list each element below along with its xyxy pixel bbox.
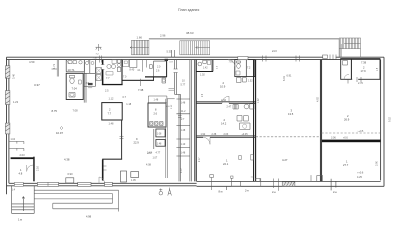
svg-text:2-н: 2-н [272, 190, 276, 194]
outer left wall [7, 57, 9, 194]
corridor pair below B2 [166, 99, 168, 178]
room A fixtures [68, 61, 77, 64]
svg-text:3.06: 3.06 [331, 137, 336, 140]
svg-text:14.2: 14.2 [221, 122, 227, 126]
central dark wall x321 [320, 60, 321, 182]
benchmark symbol [96, 44, 102, 51]
svg-text:2.03: 2.03 [20, 153, 26, 157]
duct strip above B2 [148, 96, 167, 103]
svg-text:1.3: 1.3 [217, 65, 219, 69]
svg-text:7.38: 7.38 [361, 61, 367, 65]
right column boxes [84, 60, 95, 87]
svg-text:1.48: 1.48 [181, 102, 186, 105]
room A box [66, 60, 84, 72]
svg-text:2.38: 2.38 [212, 133, 217, 136]
svg-text:3.90: 3.90 [376, 161, 379, 166]
sink in B [69, 93, 75, 98]
svg-text:1.4: 1.4 [12, 189, 16, 192]
door gap bottom of corner room [352, 78, 358, 80]
svg-text:2-н: 2-н [245, 189, 249, 193]
left wall window 3 [5, 123, 9, 134]
kitchen fixtures [107, 64, 111, 68]
L wall from room C down [121, 120, 123, 159]
dark wall pair x194.8-196.3 [195, 60, 197, 182]
room D1 [196, 71, 213, 73]
svg-text:7.7: 7.7 [108, 111, 112, 115]
svg-text:0.9: 0.9 [170, 62, 174, 64]
toilet in B [70, 75, 75, 78]
bottom wall right part [197, 181, 384, 186]
svg-text:2.6: 2.6 [156, 70, 160, 73]
svg-text:+0.6: +0.6 [343, 137, 348, 140]
wall stub x58 below top wall [57, 60, 58, 77]
svg-text:7.2: 7.2 [96, 54, 100, 56]
svg-text:38.63: 38.63 [186, 31, 194, 35]
svg-text:5.35: 5.35 [167, 50, 173, 54]
ticks crossing wall [261, 178, 279, 191]
vestibule right [317, 176, 323, 182]
svg-text:1.66: 1.66 [137, 35, 143, 39]
svg-text:1.48: 1.48 [181, 152, 186, 155]
svg-text:2.07: 2.07 [148, 152, 153, 155]
shaft wall pair right of bathroom B [84, 73, 86, 102]
svg-text:3: 3 [291, 109, 293, 113]
top cluster internal boxes [130, 60, 137, 68]
entrance marker symbols below wall [159, 189, 162, 192]
svg-text:13.71: 13.71 [68, 68, 75, 72]
svg-text:1: 1 [226, 159, 228, 163]
svg-text:9: 9 [136, 137, 138, 141]
thick wall right wing [322, 132, 380, 134]
svg-text:1.73: 1.73 [52, 63, 56, 69]
svg-text:2: 2 [363, 66, 365, 70]
dashed line y136.8 [256, 136, 321, 138]
svg-text:5.77: 5.77 [181, 84, 186, 87]
svg-text:1: 1 [346, 160, 348, 164]
svg-text:7.0: 7.0 [123, 76, 127, 79]
top-right corner room [341, 59, 380, 80]
svg-text:4.92: 4.92 [317, 97, 320, 102]
bottom-left window in wall [14, 182, 23, 186]
gate marks between stairs [172, 50, 175, 57]
svg-text:1.02: 1.02 [258, 98, 260, 103]
svg-text:2: 2 [347, 114, 349, 118]
svg-text:2.0: 2.0 [157, 66, 161, 69]
fixture P below room E [162, 78, 166, 83]
wall y136.5 middle [197, 136, 256, 137]
svg-text:≈+0.6: ≈+0.6 [357, 172, 364, 175]
room D2 [235, 60, 255, 77]
svg-text:4.1: 4.1 [137, 69, 141, 72]
boxes below B2 [153, 129, 155, 149]
dark wall x253.4-255.8 [254, 60, 256, 182]
stair 3 (top-right porch) [339, 38, 360, 57]
svg-text:2: 2 [223, 81, 225, 85]
svg-text:1.48: 1.48 [109, 122, 114, 125]
svg-text:8 м: 8 м [219, 190, 223, 194]
svg-text:0.90: 0.90 [68, 172, 74, 176]
dark wall y157 [11, 157, 35, 159]
door swing room 4.8 [27, 165, 34, 172]
windows on bottom wall (left) [37, 182, 58, 186]
window box on top wall above D2 [238, 57, 248, 60]
svg-text:1: 1 [20, 168, 22, 172]
svg-text:1.12: 1.12 [109, 97, 114, 100]
canopy line over entrances [149, 39, 341, 57]
svg-text:2.6: 2.6 [154, 113, 158, 116]
svg-text:13.5: 13.5 [288, 112, 294, 116]
svg-text:7.04: 7.04 [72, 87, 78, 91]
svg-text:1.04: 1.04 [11, 139, 16, 141]
svg-text:2.17: 2.17 [199, 157, 201, 162]
svg-text:2.7: 2.7 [181, 118, 185, 121]
fixtures in B2 [150, 122, 163, 126]
svg-text:26.9: 26.9 [344, 118, 350, 122]
svg-text:1.48: 1.48 [154, 99, 159, 102]
svg-text:7.7: 7.7 [106, 77, 110, 80]
svg-text:4.27: 4.27 [282, 158, 288, 162]
small box left of room E [149, 65, 152, 69]
stair 2 (top-center porch) [180, 41, 210, 55]
window ticks top wall + 2-И [263, 56, 300, 62]
bottom wall left part [7, 183, 197, 186]
stub horizontal at left [52, 68, 58, 70]
outer right wall [381, 57, 384, 186]
window box 231.6-240.6 [232, 181, 241, 186]
left wall window 1 [5, 66, 9, 78]
svg-text:22.9: 22.9 [134, 141, 140, 145]
door swing at x99 [99, 177, 105, 183]
svg-text:1.48: 1.48 [181, 129, 186, 132]
svg-text:2.03: 2.03 [224, 133, 229, 136]
small box 1.05 [131, 172, 139, 178]
room E [154, 61, 167, 77]
svg-text:1.10: 1.10 [181, 143, 186, 146]
svg-text:План здания: План здания [178, 8, 199, 12]
small box at left bottom [121, 171, 127, 182]
svg-text:3.40: 3.40 [12, 73, 16, 79]
top wall door opening right [323, 56, 336, 59]
svg-text:6.31: 6.31 [283, 76, 286, 81]
svg-text:27.7: 27.7 [343, 163, 349, 167]
svg-text:7.38: 7.38 [93, 57, 98, 59]
svg-text:1.48: 1.48 [157, 144, 162, 146]
svg-text:4.25: 4.25 [357, 176, 362, 179]
short wall left of cluster [140, 79, 142, 86]
left closet stubs [9, 141, 24, 151]
bathroom B2 [148, 103, 166, 127]
svg-text:22.1: 22.1 [223, 162, 229, 166]
svg-text:4.8: 4.8 [19, 171, 23, 175]
cells wall pair x189.9-191.3 [190, 60, 191, 182]
svg-text:4.98: 4.98 [86, 215, 92, 219]
stair 1 (top-left porch) [130, 40, 149, 55]
svg-text:7.38: 7.38 [138, 88, 144, 92]
svg-text:10: 10 [182, 80, 185, 83]
kitchen dark walls [102, 60, 104, 65]
svg-text:2.12: 2.12 [171, 104, 173, 109]
svg-text:1 м: 1 м [18, 218, 22, 222]
svg-text:1.92: 1.92 [201, 133, 206, 136]
left wall window 2 [5, 91, 9, 105]
svg-text:2.5: 2.5 [105, 90, 109, 93]
svg-text:1.05: 1.05 [131, 179, 136, 182]
corridor wall pair x174.6-176.4 (upper) [175, 60, 177, 95]
svg-text:9.52: 9.52 [389, 117, 392, 122]
svg-text:8: 8 [155, 109, 157, 112]
svg-text:1.07: 1.07 [153, 157, 158, 160]
svg-text:4.77: 4.77 [156, 152, 161, 155]
fixtures in room 22.1 [251, 155, 254, 161]
svg-text:4.08: 4.08 [146, 164, 151, 167]
svg-text:2.47: 2.47 [227, 106, 232, 109]
svg-text:17.9: 17.9 [361, 69, 367, 73]
bathroom B box [66, 73, 83, 99]
cells dividers column x178.7-189.9 [176, 99, 190, 156]
svg-text:1.23: 1.23 [13, 100, 19, 104]
svg-text:10.9: 10.9 [220, 85, 226, 89]
svg-text:2.44: 2.44 [221, 99, 226, 102]
svg-text:7.08: 7.08 [73, 109, 79, 113]
svg-text:+0.45: +0.45 [242, 133, 249, 136]
svg-text:0.6: 0.6 [167, 106, 171, 108]
svg-text:2: 2 [109, 108, 111, 112]
dark wall vertical x34 [33, 157, 35, 182]
door arc into corridor [228, 60, 235, 67]
svg-text:2.17: 2.17 [180, 168, 183, 173]
svg-text:2.6: 2.6 [202, 93, 204, 97]
svg-text:6.91: 6.91 [287, 75, 292, 78]
svg-text:2: 2 [224, 118, 226, 122]
svg-text:7.2: 7.2 [247, 67, 251, 70]
svg-text:2.16: 2.16 [37, 166, 40, 171]
ramp (switchback) [34, 190, 118, 211]
svg-text:2.96: 2.96 [160, 33, 166, 37]
outer top wall [7, 57, 385, 59]
svg-text:3.37: 3.37 [34, 83, 40, 87]
svg-text:11.2: 11.2 [181, 110, 186, 113]
svg-text:4.59: 4.59 [29, 60, 35, 64]
hatched window 282-295 [282, 182, 295, 186]
svg-text:1.52: 1.52 [248, 81, 253, 83]
svg-text:1.02: 1.02 [200, 74, 205, 77]
cells west wall pair (lower) [179, 95, 181, 182]
svg-text:8.75: 8.75 [52, 109, 58, 113]
svg-text:1.5: 1.5 [377, 67, 379, 71]
svg-text:8.40: 8.40 [130, 68, 135, 71]
svg-text:1.08: 1.08 [157, 133, 162, 135]
dark riser at E top-right [165, 59, 168, 61]
svg-text:2-И: 2-И [272, 49, 277, 53]
svg-text:4.38: 4.38 [64, 158, 70, 162]
svg-text:10.97: 10.97 [56, 131, 63, 135]
fixture right in B [79, 80, 82, 84]
fixtures right of room [237, 116, 248, 122]
square room C dark [102, 103, 122, 120]
svg-text:1.18: 1.18 [126, 103, 131, 106]
svg-text:1.42: 1.42 [203, 68, 208, 70]
corridor wall y102.5 [196, 102, 256, 104]
radiator hatched [233, 105, 238, 110]
small boxes with circles left of kitchen wall [96, 68, 102, 81]
svg-text:≈+0.5: ≈+0.5 [358, 130, 365, 133]
svg-text:2.70: 2.70 [358, 82, 363, 85]
svg-text:2-н: 2-н [333, 190, 337, 194]
svg-text:0.7: 0.7 [123, 96, 127, 99]
